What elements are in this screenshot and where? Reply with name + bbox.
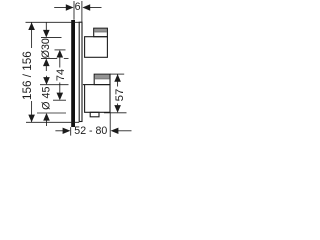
dim 6: left arrowhead (66, 4, 74, 10)
upper knob body (85, 37, 108, 58)
dim 74: dimension line upper segment (59, 56, 61, 68)
dim 52-80: left arrowhead (63, 128, 71, 134)
dim 74: bottom ref line (53, 99, 66, 101)
svg-text:Ø30: Ø30 (40, 38, 52, 58)
dim 74: top ref line (55, 49, 66, 51)
dim 156: bottom extension line (26, 121, 79, 123)
dim O30: upper arrow tail (45, 22, 47, 30)
wall section bar (71, 20, 75, 127)
upper knob tab parting line (94, 31, 107, 33)
dim 6: left arrow tail (54, 7, 66, 9)
dim 52-80: left ref line (70, 127, 72, 135)
dim O45: lower arrow tail (46, 118, 48, 126)
ref line down from knob right edge (109, 112, 111, 137)
dim 156: top arrowhead (28, 22, 35, 30)
dim O30: upper arrowhead (43, 30, 50, 38)
dim O30: lower arrow tail (45, 64, 47, 71)
dim 57: dimension line lower segment (117, 104, 119, 108)
dim 57: dimension line upper segment (117, 74, 119, 86)
upper knob tab grip band (94, 29, 107, 32)
ref line right of lower knob bottom (104, 112, 127, 114)
lower knob bottom tab (90, 112, 99, 117)
dim O45: bottom extension line (37, 112, 66, 114)
lower knob tab parting line (95, 78, 109, 80)
upper knob tab (94, 28, 108, 37)
svg-text:Ø 45: Ø 45 (41, 86, 53, 109)
escutcheon plate side view (79, 22, 82, 121)
lower knob body (85, 85, 110, 113)
dim 6: right arrowhead (82, 4, 90, 10)
dim 156: dimension line lower segment (31, 101, 33, 122)
dim O30: top extension line (41, 37, 62, 39)
svg-text:74: 74 (55, 69, 67, 81)
dim 6: right extension line (81, 1, 83, 22)
dim 52-80: right arrow tail (117, 130, 132, 132)
dim 6: left extension line (73, 1, 75, 20)
lower knob tab grip band (95, 75, 110, 79)
dim 156: top extension line (26, 21, 80, 23)
ref line right of lower knob top (110, 73, 124, 75)
dim 74: dimension line lower segment (59, 83, 61, 95)
dim 74: top arrowhead (57, 50, 64, 58)
dim O30: bottom extension line (41, 57, 57, 59)
lower knob body top line to plate (83, 84, 85, 86)
dim 57: bottom arrowhead (114, 105, 121, 113)
dim O30: lower arrowhead (43, 59, 50, 67)
dim 52-80: left arrow tail (55, 130, 64, 132)
dim 156: dimension line upper segment (31, 22, 33, 48)
dim O45: top extension line (40, 84, 69, 86)
dim 156: bottom arrowhead (28, 115, 35, 123)
svg-text:6: 6 (75, 1, 81, 13)
dim O45: upper arrowhead (43, 77, 50, 85)
dim 57: top arrowhead (114, 74, 121, 82)
svg-text:52 - 80: 52 - 80 (74, 125, 107, 137)
svg-text:57: 57 (114, 89, 126, 102)
dim 52-80: right arrowhead (111, 128, 119, 134)
lower knob tab (94, 74, 110, 84)
dim O45: upper arrow tail (46, 76, 48, 80)
svg-text:156 / 156: 156 / 156 (21, 51, 34, 100)
dim O45: lower arrowhead (43, 113, 50, 121)
dim 6: right arrow tail (89, 7, 102, 9)
dim 74: bottom arrowhead (57, 93, 64, 101)
